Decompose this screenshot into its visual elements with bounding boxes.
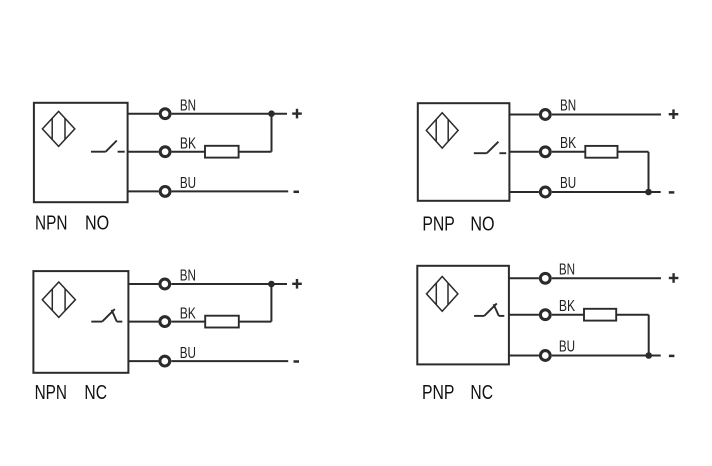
sensor box NPN NC bbox=[33, 271, 128, 373]
load resistor bbox=[205, 146, 239, 158]
terminal circle BN bbox=[540, 273, 550, 283]
NC switch contact bbox=[474, 303, 504, 316]
sensor box PNP NC bbox=[417, 266, 509, 365]
wire BU bbox=[128, 190, 159, 192]
wire resistor to riser bbox=[239, 151, 272, 153]
caption PNP NO bbox=[422, 213, 494, 235]
svg-text:BU: BU bbox=[560, 175, 576, 192]
terminal circle BK bbox=[160, 147, 170, 157]
wire BN bbox=[509, 277, 539, 279]
svg-text:NO: NO bbox=[470, 213, 494, 235]
wire BK bbox=[128, 321, 158, 323]
sensor box NPN NO bbox=[34, 103, 128, 202]
junction dot bbox=[268, 110, 275, 117]
wire resistor to riser bbox=[239, 321, 272, 323]
wire BN to plus bbox=[172, 113, 287, 115]
svg-text:BK: BK bbox=[180, 305, 196, 322]
wire BK to resistor bbox=[171, 321, 205, 323]
wire BK to resistor bbox=[552, 314, 584, 316]
dropper wire to BU junction bbox=[648, 152, 650, 192]
svg-text:BN: BN bbox=[180, 97, 196, 114]
svg-text:BN: BN bbox=[560, 98, 576, 115]
terminal circle BU bbox=[160, 356, 170, 366]
riser wire to BN junction bbox=[270, 284, 272, 322]
wire BK to resistor bbox=[552, 151, 586, 153]
wire resistor to dropper bbox=[616, 314, 649, 316]
terminal circle BK bbox=[540, 310, 550, 320]
wire BN bbox=[509, 114, 539, 116]
svg-text:BK: BK bbox=[180, 136, 196, 153]
plus terminal bbox=[292, 279, 302, 289]
junction dot bbox=[645, 352, 652, 359]
caption PNP NC bbox=[422, 382, 493, 404]
terminal circle BN bbox=[160, 279, 170, 289]
wire BU bbox=[128, 360, 158, 362]
minus terminal bbox=[294, 360, 300, 363]
riser wire to BN junction bbox=[271, 114, 273, 152]
svg-text:NPN: NPN bbox=[35, 382, 67, 404]
wire BK to resistor bbox=[172, 151, 205, 153]
terminal circle BN bbox=[160, 109, 170, 119]
terminal circle BU bbox=[160, 187, 170, 197]
wire BK bbox=[509, 151, 539, 153]
svg-text:PNP: PNP bbox=[422, 213, 454, 235]
plus terminal bbox=[669, 109, 679, 119]
caption NPN NO bbox=[35, 213, 109, 235]
minus terminal bbox=[669, 191, 675, 194]
svg-text:PNP: PNP bbox=[422, 382, 454, 404]
terminal circle BU bbox=[540, 187, 550, 197]
dropper wire to BU junction bbox=[648, 315, 650, 356]
svg-text:NPN: NPN bbox=[35, 213, 67, 235]
sensor diamond symbol bbox=[426, 113, 458, 148]
svg-text:BU: BU bbox=[180, 345, 196, 362]
svg-text:BN: BN bbox=[180, 268, 196, 285]
junction dot bbox=[645, 189, 652, 196]
load resistor bbox=[584, 309, 616, 321]
wire resistor to dropper bbox=[618, 151, 649, 153]
svg-text:BN: BN bbox=[559, 261, 575, 278]
NO switch contact bbox=[91, 141, 125, 152]
sensor diamond symbol bbox=[427, 277, 458, 312]
sensor diamond symbol bbox=[42, 282, 75, 317]
caption NPN NC bbox=[35, 382, 107, 404]
wire BN bbox=[128, 113, 159, 115]
NO switch contact bbox=[474, 142, 506, 154]
svg-text:BU: BU bbox=[180, 175, 196, 192]
wire BU to minus bbox=[552, 191, 661, 193]
terminal circle BU bbox=[540, 351, 550, 361]
wire BN bbox=[128, 283, 158, 285]
sensor diamond symbol bbox=[42, 111, 74, 146]
terminal circle BN bbox=[540, 110, 550, 120]
minus terminal bbox=[669, 355, 675, 358]
minus terminal bbox=[294, 191, 300, 194]
svg-text:NC: NC bbox=[84, 382, 107, 404]
wire BU bbox=[509, 191, 539, 193]
load resistor bbox=[585, 146, 617, 158]
wire BN to plus bbox=[552, 114, 661, 116]
wire BU to minus bbox=[552, 355, 661, 357]
wire BN to plus bbox=[552, 277, 661, 279]
svg-text:NC: NC bbox=[470, 382, 493, 404]
wire BK bbox=[509, 314, 539, 316]
svg-text:BK: BK bbox=[559, 298, 575, 315]
wire BU to minus bbox=[171, 360, 288, 362]
wire BK bbox=[128, 151, 159, 153]
svg-text:BU: BU bbox=[559, 339, 575, 356]
junction dot bbox=[268, 281, 275, 288]
wire BU bbox=[509, 355, 539, 357]
terminal circle BK bbox=[160, 317, 170, 327]
svg-text:BK: BK bbox=[560, 135, 576, 152]
load resistor bbox=[205, 316, 239, 328]
sensor box PNP NO bbox=[418, 103, 510, 201]
wire BN to plus bbox=[171, 283, 287, 285]
NC switch contact bbox=[91, 309, 122, 322]
svg-text:NO: NO bbox=[85, 213, 109, 235]
plus terminal bbox=[669, 273, 679, 283]
terminal circle BK bbox=[540, 147, 550, 157]
plus terminal bbox=[292, 109, 302, 119]
wire BU to minus bbox=[172, 190, 289, 192]
